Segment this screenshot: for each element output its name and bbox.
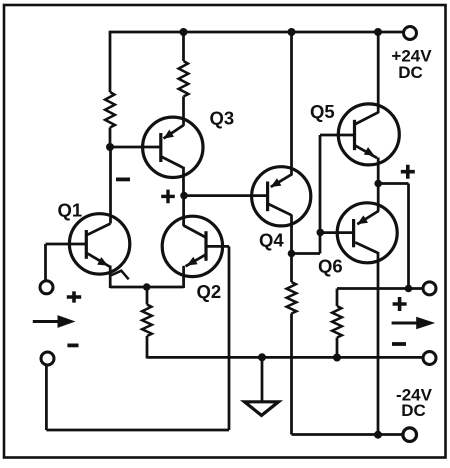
svg-text:Q4: Q4: [259, 230, 284, 251]
svg-text:Q1: Q1: [58, 200, 83, 221]
svg-text:Q5: Q5: [310, 101, 335, 122]
svg-text:Q3: Q3: [210, 108, 235, 129]
svg-text:DC: DC: [398, 63, 423, 82]
svg-text:Q2: Q2: [197, 281, 222, 302]
svg-text:DC: DC: [401, 401, 426, 420]
svg-text:Q6: Q6: [318, 256, 343, 277]
